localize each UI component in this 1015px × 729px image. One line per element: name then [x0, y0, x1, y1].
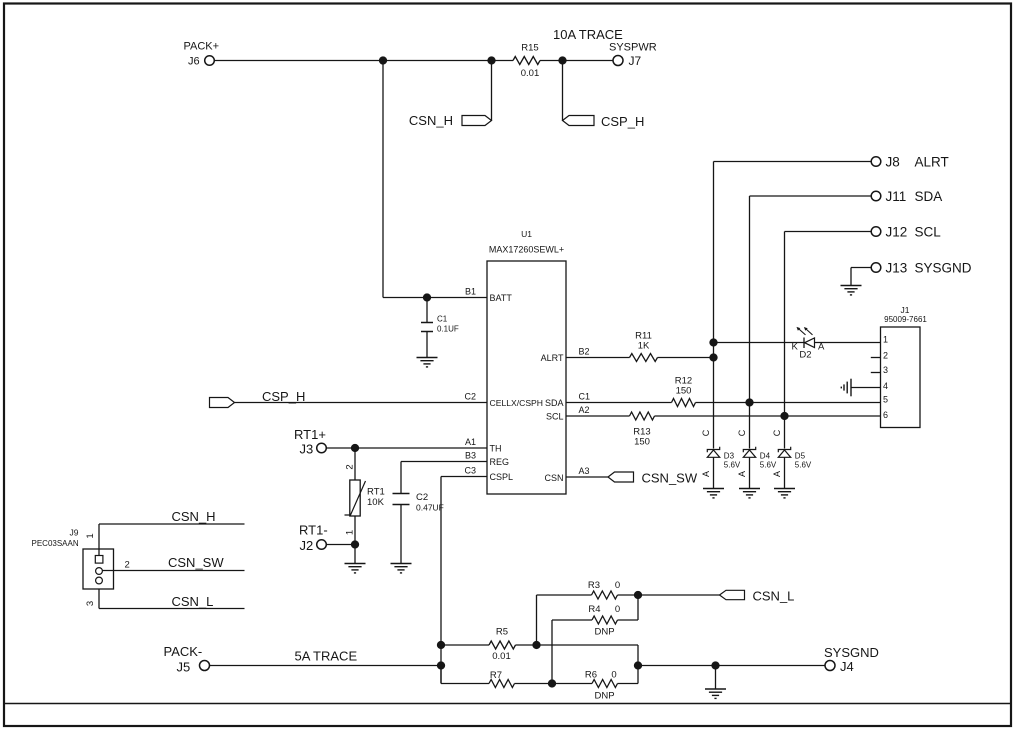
connector J8 (ALRT): [871, 155, 949, 170]
wire R6 right to SYSGND: [618, 666, 639, 684]
svg-text:R5: R5: [496, 627, 508, 638]
wire PACK- to sense node: [210, 665, 442, 667]
svg-text:CSPL: CSPL: [490, 472, 514, 482]
wire PACK+ vertical to BATT: [382, 61, 384, 298]
wire PACK+ rail J6 to R15: [215, 60, 514, 62]
LED D2: [792, 327, 826, 361]
svg-text:D3: D3: [724, 452, 735, 461]
junction LED cathode: [709, 338, 717, 346]
svg-text:J11: J11: [886, 189, 907, 204]
svg-text:CSN_H: CSN_H: [409, 113, 453, 128]
wire R5 to CSN node: [516, 644, 537, 646]
svg-text:CSP_H: CSP_H: [262, 389, 305, 404]
svg-text:5.6V: 5.6V: [795, 461, 812, 470]
svg-text:C: C: [701, 429, 711, 436]
svg-text:J12: J12: [886, 225, 908, 240]
svg-text:D2: D2: [799, 350, 811, 361]
svg-text:PACK+: PACK+: [184, 41, 220, 53]
junction R3/R4 right: [634, 591, 642, 599]
svg-text:SYSGND: SYSGND: [915, 261, 972, 276]
connector J9 PEC03SAAN: [32, 528, 114, 590]
svg-text:150: 150: [676, 386, 692, 397]
svg-text:D5: D5: [795, 452, 806, 461]
svg-text:1K: 1K: [638, 341, 650, 352]
connector J7 (SYSPWR): [609, 42, 657, 69]
svg-text:SYSPWR: SYSPWR: [609, 42, 657, 54]
resistor R7: [489, 670, 515, 688]
svg-text:PEC03SAAN: PEC03SAAN: [32, 539, 79, 548]
junction R5 right / R3 branch: [532, 641, 540, 649]
wire R15 to J7: [540, 60, 613, 62]
svg-text:A: A: [772, 471, 782, 477]
svg-text:C1: C1: [579, 392, 591, 402]
svg-text:R4: R4: [588, 604, 600, 615]
wire REG to C2: [401, 462, 487, 494]
wire J13 to ground: [851, 268, 871, 286]
wire PACK- down to R7: [440, 666, 442, 684]
ground (J1 pin 4, rotated): [841, 379, 851, 397]
wire J1 pin 4 to ground: [851, 387, 881, 389]
resistor R3 0: [588, 580, 620, 599]
wire LED anode to J1 pin 1: [815, 342, 881, 344]
ground (J13): [841, 286, 862, 295]
svg-text:B1: B1: [465, 287, 476, 297]
wire R7 left stub: [441, 683, 489, 685]
wire CSP_H drop: [562, 61, 564, 121]
svg-text:C2: C2: [464, 392, 476, 402]
svg-text:0.47UF: 0.47UF: [416, 503, 444, 513]
wire RT1 to ground: [354, 545, 356, 564]
svg-text:MAX17260SEWL+: MAX17260SEWL+: [489, 245, 564, 255]
svg-text:0: 0: [615, 580, 620, 591]
wire R4 up to R3 junction: [637, 595, 639, 620]
ground (C1): [417, 358, 438, 367]
svg-text:ALRT: ALRT: [915, 155, 949, 170]
wire J3 to TH: [327, 447, 488, 449]
junction R7/R4/R6: [548, 679, 556, 687]
wire R7 to R6: [515, 683, 553, 685]
svg-text:J7: J7: [629, 54, 642, 68]
zener diode D5 5.6V: [778, 447, 812, 489]
svg-text:10K: 10K: [367, 497, 385, 508]
svg-text:R7: R7: [490, 670, 502, 681]
svg-text:A: A: [701, 471, 711, 477]
svg-text:J2: J2: [300, 538, 314, 553]
junction SDA clamp: [745, 398, 753, 406]
svg-text:CSN: CSN: [544, 473, 563, 483]
wire CSN_L to tag: [638, 594, 720, 596]
svg-text:J8: J8: [886, 155, 900, 170]
resistor R15 0.01: [513, 43, 540, 80]
wire R13 to J1 pin 6: [655, 415, 881, 417]
svg-text:0: 0: [615, 604, 620, 615]
wire J8 to ALRT node: [714, 162, 872, 449]
svg-text:2: 2: [345, 464, 356, 469]
wire J9 pin 3 to CSN_L: [98, 589, 100, 609]
junction R5 left: [437, 641, 445, 649]
svg-text:1: 1: [85, 533, 96, 538]
net tag CSP_H (top): [563, 114, 645, 129]
wire CSN from U1: [566, 476, 608, 478]
svg-text:0.01: 0.01: [492, 651, 511, 662]
svg-text:A3: A3: [579, 466, 590, 476]
svg-text:0: 0: [611, 670, 616, 681]
svg-text:0.01: 0.01: [521, 68, 540, 79]
svg-text:R15: R15: [521, 43, 538, 54]
wire CSN node up to R3: [537, 595, 592, 645]
junction SYSGND ground tap: [711, 661, 719, 669]
wire CSP_H to CELLX/CSPH: [235, 402, 488, 404]
junction SCL clamp: [780, 412, 788, 420]
svg-text:SDA: SDA: [915, 189, 943, 204]
wire R4 left branch: [552, 620, 592, 684]
resistor R5 0.01: [489, 627, 516, 663]
svg-text:U1: U1: [521, 229, 532, 239]
svg-text:J4: J4: [840, 659, 854, 674]
thermistor RT1 10K: [345, 448, 385, 545]
capacitor C1 0.1UF: [421, 298, 459, 358]
svg-text:RT1+: RT1+: [294, 427, 326, 442]
svg-text:RT1-: RT1-: [299, 523, 328, 538]
svg-text:J5: J5: [177, 660, 191, 675]
svg-text:TH: TH: [490, 444, 502, 454]
connector J1 95009-7661: [881, 305, 928, 428]
IC U1 MAX17260SEWL+: [487, 229, 566, 494]
svg-text:REG: REG: [490, 457, 510, 467]
svg-text:K: K: [792, 342, 799, 353]
svg-text:1: 1: [883, 335, 888, 345]
wire CSN node to SYSGND branch: [537, 645, 639, 666]
wire SDA from U1: [566, 402, 672, 404]
wire ALRT node to LED cathode: [714, 342, 805, 344]
wire ground drop (SYSGND): [715, 666, 717, 690]
zener diode D4 5.6V: [743, 447, 777, 489]
wire R4 right to CSN_L node: [618, 619, 639, 621]
svg-text:A2: A2: [579, 405, 590, 415]
wire BATT to U1: [383, 297, 487, 299]
svg-text:CSN_SW: CSN_SW: [642, 471, 698, 486]
net CSN_L line: [99, 594, 245, 609]
svg-text:A1: A1: [465, 437, 476, 447]
junction CSP_H drop: [558, 56, 566, 64]
ground (D4): [739, 489, 760, 498]
svg-text:CSN_SW: CSN_SW: [168, 555, 224, 570]
junction C1 tap: [423, 293, 431, 301]
wire J9 pin 1 to CSN_H: [98, 524, 100, 556]
svg-text:SCL: SCL: [546, 412, 564, 422]
wire R3 to CSN_L node: [618, 594, 639, 596]
svg-text:PACK-: PACK-: [164, 644, 203, 659]
svg-text:J13: J13: [886, 261, 908, 276]
wire J2 to RT1: [327, 544, 356, 546]
svg-text:CSN_L: CSN_L: [172, 594, 214, 609]
svg-text:10A TRACE: 10A TRACE: [553, 27, 623, 42]
svg-text:ALRT: ALRT: [541, 353, 564, 363]
svg-text:4: 4: [883, 381, 888, 391]
svg-text:95009-7661: 95009-7661: [884, 315, 927, 324]
junction PACK- / CSPL: [437, 661, 445, 669]
svg-text:J1: J1: [901, 305, 910, 315]
wire ALRT from U1: [566, 357, 630, 359]
resistor R6 0 DNP: [585, 670, 618, 702]
svg-text:B3: B3: [465, 451, 476, 461]
svg-text:2: 2: [125, 560, 130, 571]
capacitor C2 0.47UF: [393, 492, 444, 564]
resistor R13 150: [630, 412, 655, 448]
wire R6 left stub: [552, 683, 592, 685]
svg-text:CSP_H: CSP_H: [601, 114, 644, 129]
svg-text:J3: J3: [300, 442, 314, 457]
connector J13 (SYSGND): [871, 261, 972, 276]
svg-text:5.6V: 5.6V: [760, 461, 777, 470]
ground (C2): [391, 564, 412, 573]
svg-text:2: 2: [883, 351, 888, 361]
svg-text:SYSGND: SYSGND: [824, 645, 879, 660]
svg-text:DNP: DNP: [594, 627, 614, 638]
wire J12 to SCL node: [785, 232, 872, 449]
svg-text:5.6V: 5.6V: [724, 461, 741, 470]
wire SCL from U1: [566, 415, 630, 417]
wire CSPL from U1: [441, 476, 487, 478]
connector J2 (RT1-): [299, 523, 328, 554]
connector J4 (SYSGND): [824, 645, 879, 674]
wire J1 pin 2 stub: [871, 357, 881, 359]
resistor R4 0 DNP: [588, 604, 620, 638]
connector J6 (PACK+): [184, 41, 220, 68]
svg-text:0.1UF: 0.1UF: [437, 325, 459, 334]
ground (D5): [774, 489, 795, 498]
junction RT1 bottom: [351, 540, 359, 548]
svg-text:J6: J6: [188, 56, 200, 68]
wire SYSGND line to J4: [638, 665, 825, 667]
svg-text:C2: C2: [416, 492, 428, 503]
junction PACK+/BATT drop: [379, 56, 387, 64]
svg-text:C: C: [772, 429, 782, 436]
connector J3 (RT1+): [294, 427, 326, 457]
svg-text:A: A: [737, 471, 747, 477]
ground (D3): [703, 489, 724, 498]
svg-text:J9: J9: [70, 528, 79, 538]
svg-text:R3: R3: [588, 580, 600, 591]
net tag CSN_L: [720, 589, 795, 604]
svg-text:BATT: BATT: [490, 293, 513, 303]
junction RT1 top: [351, 444, 359, 452]
net CSN_H line: [99, 509, 245, 524]
wire R12 to J1 pin 5: [696, 402, 881, 404]
svg-text:6: 6: [883, 410, 888, 420]
svg-text:CSN_H: CSN_H: [172, 509, 216, 524]
connector J11 (SDA): [871, 189, 942, 204]
svg-text:SDA: SDA: [545, 398, 564, 408]
svg-text:3: 3: [883, 365, 888, 375]
wire R11 to ALRT node: [658, 357, 714, 359]
svg-text:CELLX/CSPH: CELLX/CSPH: [490, 398, 544, 408]
svg-text:B2: B2: [579, 347, 590, 357]
svg-text:D4: D4: [760, 452, 771, 461]
svg-text:5A TRACE: 5A TRACE: [295, 649, 358, 664]
junction ALRT / R11: [709, 353, 717, 361]
zener diode D3 5.6V: [707, 447, 741, 489]
svg-text:C1: C1: [437, 315, 448, 324]
svg-text:R6: R6: [585, 670, 597, 681]
wire CSN_H drop: [491, 61, 493, 121]
svg-text:SCL: SCL: [915, 225, 942, 240]
ground (SYSGND): [705, 689, 726, 698]
net CSN_SW line: [102, 555, 244, 571]
wire J1 pin 3 stub: [871, 372, 881, 374]
svg-text:C3: C3: [464, 466, 476, 476]
junction R6 / SYSGND: [634, 661, 642, 669]
wire CSPL vertical to sense network: [440, 477, 442, 684]
svg-text:RT1: RT1: [367, 487, 385, 498]
net tag CSN_SW (at U1): [608, 471, 698, 486]
svg-text:1: 1: [345, 530, 356, 535]
junction CSN_H drop: [487, 56, 495, 64]
svg-text:5: 5: [883, 395, 888, 405]
net tag CSN_H: [409, 113, 492, 128]
svg-text:DNP: DNP: [594, 691, 614, 702]
wire J11 to SDA node: [750, 196, 872, 449]
connector J5 (PACK-): [164, 644, 210, 675]
resistor R11 1K: [630, 331, 658, 362]
svg-text:150: 150: [634, 437, 650, 448]
resistor R12 150: [672, 376, 696, 407]
connector J12 (SCL): [871, 225, 941, 240]
svg-text:3: 3: [85, 601, 96, 606]
ground (RT1): [345, 564, 366, 573]
wire R5 left stub: [441, 644, 489, 646]
svg-text:C: C: [737, 429, 747, 436]
net tag CSP_H (left): [210, 389, 306, 408]
svg-text:CSN_L: CSN_L: [753, 589, 795, 604]
